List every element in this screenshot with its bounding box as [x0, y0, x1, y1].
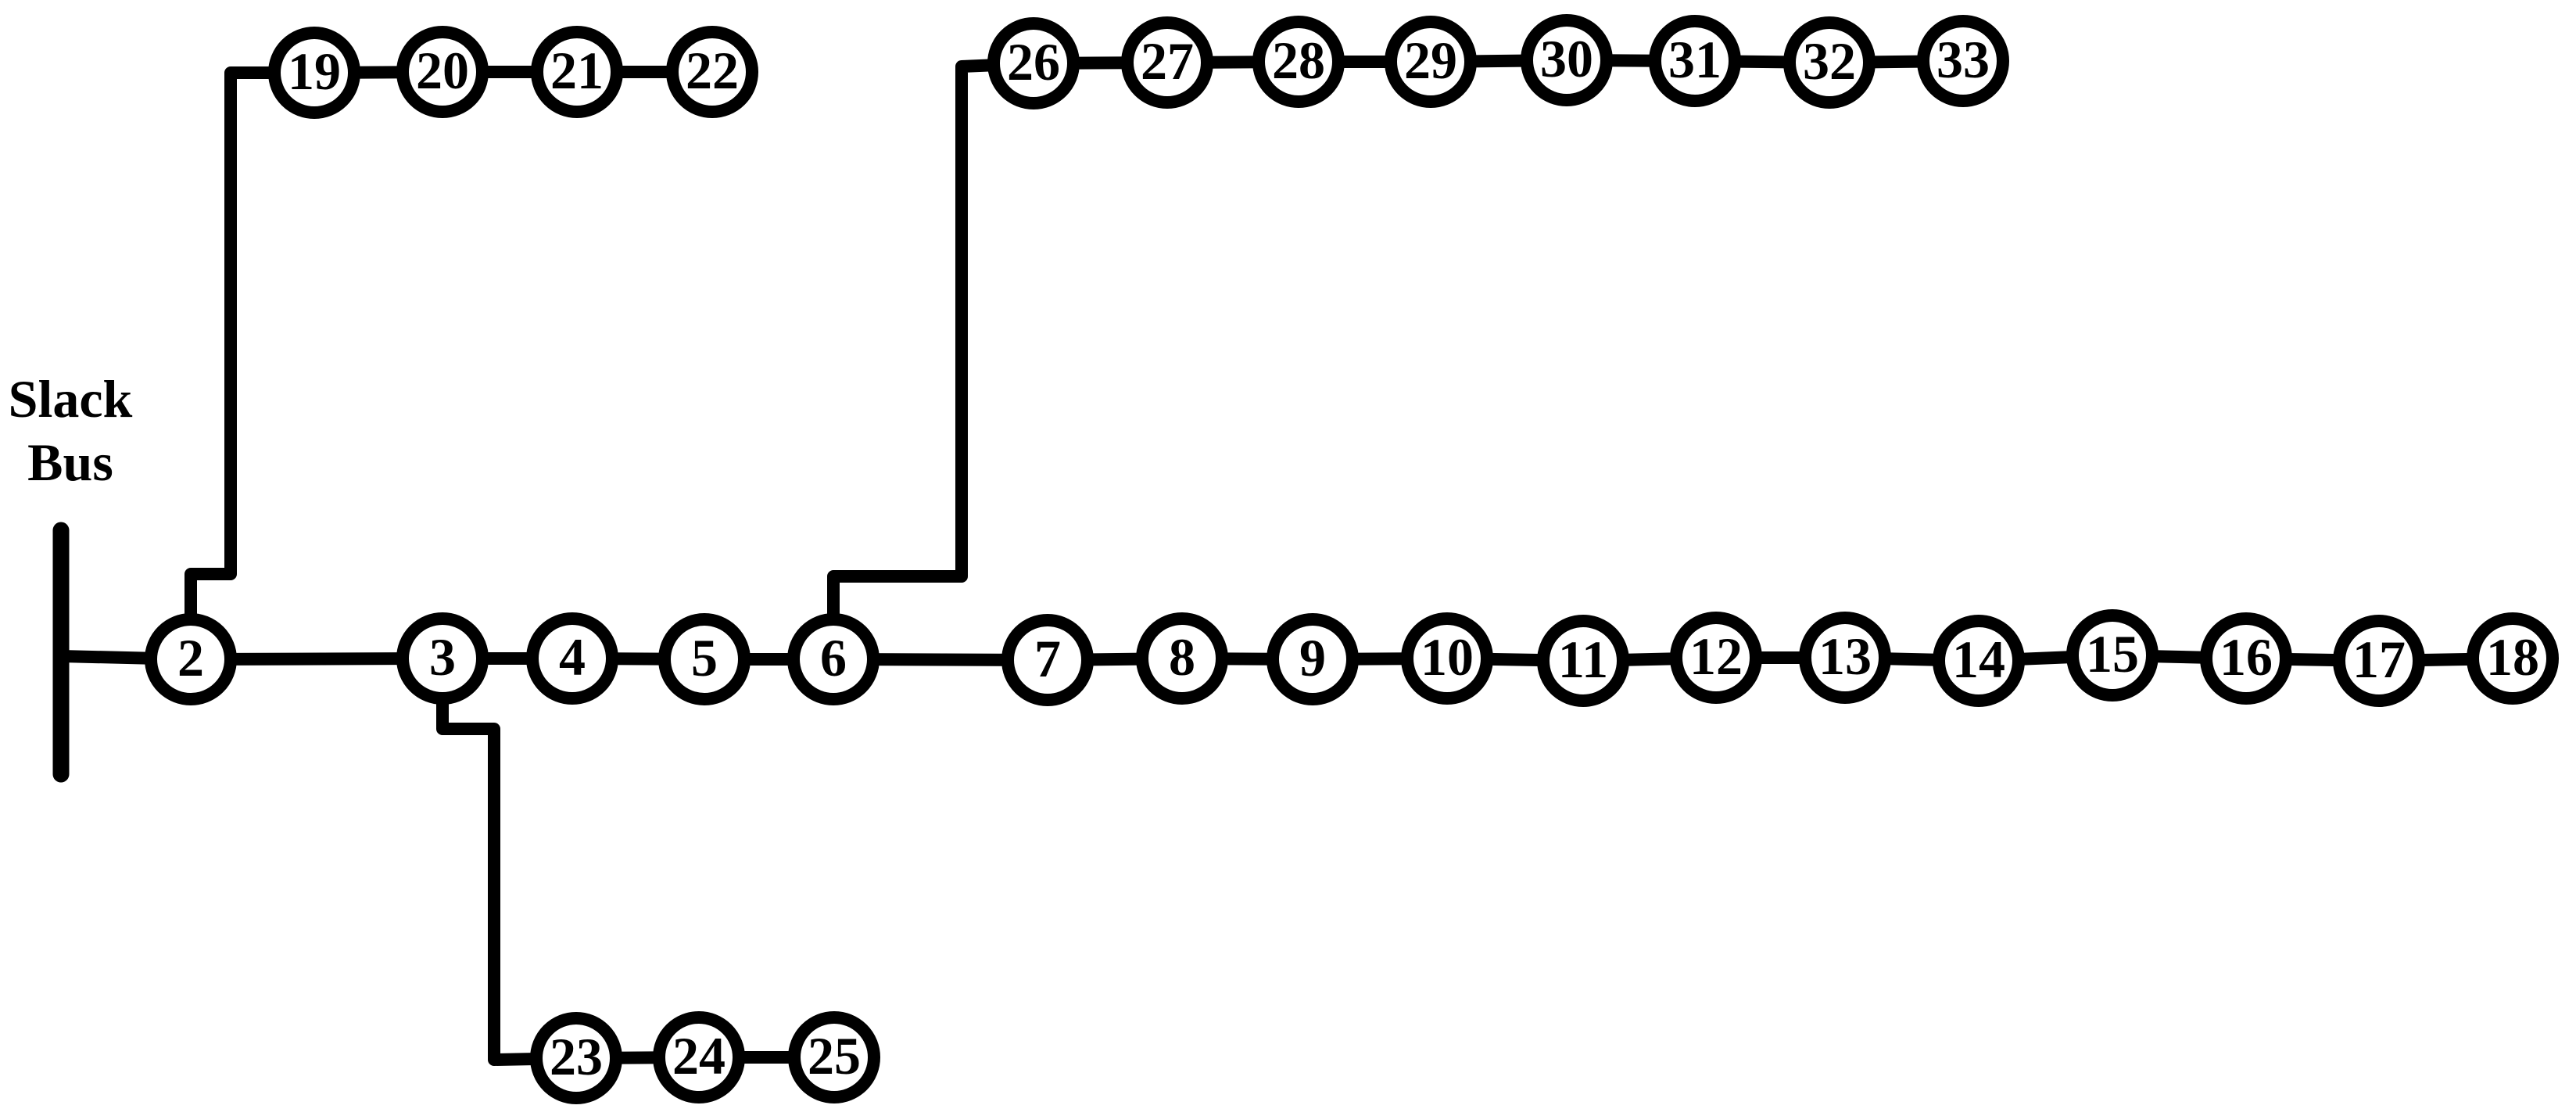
wire node 27 to node 28 — [1167, 62, 1299, 63]
wire node 16 to node 17 — [2246, 658, 2379, 661]
svg-text:32: 32 — [1803, 31, 1856, 91]
bus node 17 — [2339, 621, 2419, 701]
wire node 19 to node 20 — [314, 72, 442, 73]
wire slack bus to node 2 — [61, 656, 191, 659]
branch wire node 6 to node 26 (riser with jog) — [833, 63, 1034, 659]
wire node 24 to node 25 — [699, 1051, 834, 1064]
svg-text:Slack: Slack — [9, 369, 133, 429]
svg-text:16: 16 — [2220, 627, 2273, 687]
bus node 23 — [536, 1018, 616, 1098]
wire node 9 to node 10 — [1313, 658, 1447, 659]
wire node 2 to node 3 — [191, 658, 442, 659]
branch wire node 3 to node 23 (dropper with jog) — [442, 658, 576, 1060]
bus node 29 — [1391, 22, 1471, 102]
bus node 6 — [794, 619, 873, 699]
wire node 3 to node 4 — [442, 652, 572, 665]
bus node 27 — [1127, 23, 1207, 102]
bus node 19 — [274, 33, 354, 113]
wire node 28 to node 29 — [1299, 56, 1431, 68]
bus node 18 — [2473, 619, 2553, 698]
bus node 31 — [1655, 21, 1735, 101]
svg-text:13: 13 — [1818, 626, 1872, 686]
wire node 13 to node 14 — [1845, 658, 1979, 661]
wire node 7 to node 8 — [1048, 658, 1182, 660]
svg-text:14: 14 — [1952, 630, 2005, 689]
bus node 32 — [1790, 23, 1869, 102]
wire node 5 to node 6 — [704, 653, 833, 666]
bus node 14 — [1939, 621, 2019, 701]
bus node 12 — [1676, 618, 1756, 698]
bus node 15 — [2073, 615, 2152, 695]
bus node 4 — [532, 619, 612, 698]
branch wire node 2 to node 19 (riser with jog) — [191, 73, 314, 659]
bus node 24 — [659, 1017, 739, 1097]
bus node 5 — [665, 619, 744, 699]
svg-text:15: 15 — [2086, 624, 2139, 684]
svg-text:26: 26 — [1007, 32, 1060, 92]
svg-text:11: 11 — [1558, 630, 1608, 689]
svg-text:Bus: Bus — [27, 432, 113, 492]
bus node 7 — [1008, 620, 1087, 700]
svg-text:6: 6 — [820, 628, 847, 687]
wire node 14 to node 15 — [1979, 655, 2112, 661]
svg-text:8: 8 — [1169, 627, 1195, 687]
bus node 33 — [1923, 21, 2003, 101]
wire node 4 to node 5 — [572, 658, 704, 659]
wire node 10 to node 11 — [1447, 658, 1583, 661]
wire node 20 to node 21 — [442, 66, 577, 78]
svg-text:28: 28 — [1272, 31, 1325, 90]
bus node 21 — [537, 32, 617, 112]
bus node 20 — [403, 32, 482, 112]
bus node 25 — [794, 1017, 874, 1097]
bus node 28 — [1259, 22, 1338, 102]
svg-text:31: 31 — [1668, 30, 1722, 89]
svg-text:33: 33 — [1936, 30, 1990, 89]
wire node 15 to node 16 — [2112, 655, 2246, 658]
svg-text:30: 30 — [1540, 29, 1593, 88]
svg-text:24: 24 — [672, 1026, 726, 1085]
slack bus bar — [53, 530, 70, 774]
svg-text:2: 2 — [177, 628, 204, 687]
wire node 6 to node 7 — [833, 659, 1048, 660]
wire node 12 to node 13 — [1716, 651, 1845, 664]
svg-text:3: 3 — [429, 627, 456, 687]
svg-text:20: 20 — [416, 41, 469, 100]
wire node 31 to node 32 — [1695, 61, 1829, 63]
wire node 23 to node 24 — [576, 1057, 699, 1058]
svg-text:18: 18 — [2486, 627, 2539, 687]
wire node 11 to node 12 — [1583, 658, 1716, 661]
bus node 10 — [1407, 619, 1487, 698]
svg-text:19: 19 — [288, 41, 341, 101]
svg-text:17: 17 — [2352, 630, 2406, 689]
wire node 30 to node 31 — [1567, 60, 1695, 61]
bus node 30 — [1527, 20, 1607, 100]
svg-text:7: 7 — [1034, 629, 1061, 688]
wire node 32 to node 33 — [1829, 61, 1963, 63]
wire node 21 to node 22 — [577, 66, 712, 78]
label Slack Bus — [9, 369, 133, 492]
bus node 11 — [1543, 621, 1623, 701]
svg-text:22: 22 — [686, 41, 739, 100]
svg-text:12: 12 — [1689, 626, 1743, 686]
svg-text:27: 27 — [1141, 31, 1194, 91]
svg-text:4: 4 — [559, 627, 586, 687]
bus node 22 — [672, 32, 752, 112]
bus node 13 — [1805, 618, 1885, 698]
bus node 16 — [2206, 619, 2286, 698]
svg-text:23: 23 — [550, 1027, 603, 1086]
wire node 8 to node 9 — [1182, 658, 1313, 659]
svg-text:21: 21 — [550, 41, 604, 100]
wire node 29 to node 30 — [1431, 60, 1567, 62]
svg-text:5: 5 — [691, 628, 718, 687]
svg-text:9: 9 — [1299, 628, 1326, 687]
wire node 17 to node 18 — [2379, 658, 2513, 661]
svg-text:25: 25 — [808, 1026, 861, 1085]
bus node 26 — [994, 23, 1073, 103]
bus node 2 — [151, 619, 231, 699]
svg-text:10: 10 — [1421, 627, 1474, 687]
bus node 3 — [403, 619, 482, 698]
wire node 26 to node 27 — [1034, 63, 1167, 63]
svg-text:29: 29 — [1404, 31, 1457, 90]
bus node 9 — [1273, 619, 1352, 699]
bus node 8 — [1142, 619, 1222, 698]
